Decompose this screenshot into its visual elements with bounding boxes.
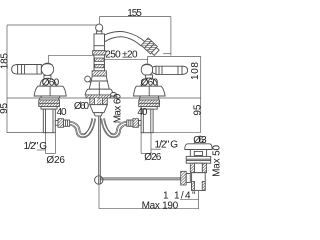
svg-text:155: 155 (127, 8, 142, 19)
svg-text:185: 185 (0, 53, 10, 70)
svg-text:95: 95 (192, 104, 203, 115)
svg-text:Ø26: Ø26 (144, 152, 161, 163)
svg-text:1/2" G: 1/2" G (155, 140, 179, 151)
svg-text:Ø26: Ø26 (46, 155, 65, 166)
svg-text:250 ±20: 250 ±20 (105, 50, 138, 61)
svg-text:Ø60: Ø60 (42, 78, 60, 89)
svg-text:Max 50: Max 50 (212, 144, 220, 176)
svg-text:Ø60: Ø60 (141, 78, 159, 89)
svg-text:40: 40 (137, 107, 147, 118)
svg-text:108: 108 (190, 62, 201, 80)
svg-text:Max 60: Max 60 (112, 93, 123, 123)
svg-text:95: 95 (0, 102, 10, 113)
svg-text:1/2" G: 1/2" G (24, 141, 48, 152)
svg-text:Ø60: Ø60 (74, 101, 90, 112)
svg-text:Max 190: Max 190 (142, 200, 179, 211)
svg-text:Ø63: Ø63 (193, 135, 207, 146)
svg-text:40: 40 (57, 107, 67, 118)
